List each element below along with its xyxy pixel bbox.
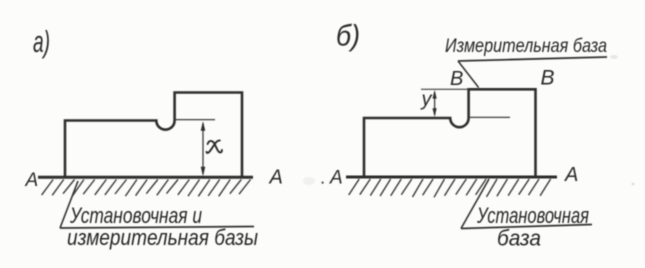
- workpiece outline (right): [364, 89, 536, 175]
- faint scan smudges: [303, 177, 315, 185]
- svg-text:б): б): [336, 20, 360, 53]
- caption underline (left): [60, 227, 254, 229]
- hatching under ground line: [42, 180, 251, 197]
- svg-text:Измерительная база: Измерительная база: [445, 36, 607, 57]
- extension line at ledge right of groove: [470, 116, 510, 118]
- svg-text:у: у: [420, 89, 433, 111]
- hatching under ground line (right): [349, 179, 551, 197]
- svg-text:а): а): [33, 24, 50, 59]
- svg-text:А: А: [564, 164, 578, 186]
- svg-text:Установочная: Установочная: [476, 203, 589, 228]
- title leader to surface B: [458, 61, 479, 88]
- svg-text:В: В: [450, 68, 463, 90]
- svg-text:измерительная базы: измерительная базы: [67, 225, 258, 250]
- caption leader (right): [461, 179, 489, 229]
- extension line at ledge: [175, 119, 215, 121]
- ground line A-A: [38, 176, 253, 179]
- svg-text:В: В: [541, 67, 555, 90]
- title underline: [458, 57, 607, 61]
- caption leader (left): [60, 181, 78, 228]
- small dot before left A: [322, 182, 324, 184]
- ground line A-A (right): [346, 176, 557, 179]
- svg-text:база: база: [497, 226, 541, 251]
- workpiece outline (stepped block with relief groove): [65, 93, 242, 177]
- dimension line y with arrowheads: [434, 92, 436, 115]
- dimension line x with arrowheads: [202, 123, 204, 174]
- label x: [207, 140, 222, 153]
- svg-text:А: А: [25, 170, 39, 191]
- svg-text:А: А: [329, 168, 343, 189]
- svg-text:А: А: [269, 167, 283, 189]
- caption underline (right): [461, 225, 592, 229]
- extension line top-left of step: [421, 88, 469, 90]
